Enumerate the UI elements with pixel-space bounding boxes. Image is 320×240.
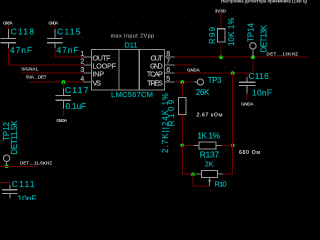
wire pin5 to TP3 bbox=[175, 81, 194, 83]
svg-text:GNDA: GNDA bbox=[3, 20, 13, 25]
wire R10 wiper bbox=[193, 174, 210, 186]
pin 1 bbox=[84, 56, 92, 58]
test point TP3 bbox=[197, 79, 203, 85]
svg-text:DET__11.5KHZ: DET__11.5KHZ bbox=[20, 161, 52, 166]
svg-text:4: 4 bbox=[80, 76, 84, 83]
wire R10 right to rail bbox=[223, 173, 233, 175]
wire C116 to ground bbox=[246, 93, 248, 99]
wire right rail bbox=[232, 73, 234, 174]
capacitor C115 bbox=[47, 29, 63, 48]
node junction R99 bbox=[219, 55, 223, 59]
svg-text:2.67 кОм: 2.67 кОм bbox=[197, 112, 223, 118]
svg-text:3V3D: 3V3D bbox=[215, 9, 227, 14]
wire junction to R109 bbox=[181, 82, 183, 97]
resistor R137 bbox=[182, 144, 193, 146]
svg-text:GNDA: GNDA bbox=[56, 118, 68, 123]
svg-text:3: 3 bbox=[80, 67, 84, 74]
wire DET_11.5KHZ net bbox=[0, 165, 38, 167]
wire C115 to pin1 bbox=[55, 48, 84, 57]
wire C111 stub bbox=[0, 182, 10, 185]
svg-text:10nF: 10nF bbox=[252, 87, 272, 97]
IC D11 LMC567CM tone decoder body bbox=[91, 49, 164, 90]
svg-text:7: 7 bbox=[166, 59, 170, 66]
svg-text:max Input 2Vpp: max Input 2Vpp bbox=[111, 33, 154, 39]
potentiometer R10 bbox=[201, 171, 217, 178]
svg-text:DET11.5K: DET11.5K bbox=[10, 120, 19, 155]
resistor R109 bbox=[179, 97, 186, 114]
capacitor C118 bbox=[1, 29, 17, 48]
capacitor C111 bbox=[2, 185, 18, 198]
capacitor C116 bbox=[246, 73, 248, 77]
test point TP12 bbox=[3, 155, 9, 161]
pin 7 bbox=[165, 64, 175, 66]
wire GNDA to C118 bbox=[7, 25, 9, 29]
wire junction to C117 bbox=[62, 82, 64, 88]
svg-text:GNDA: GNDA bbox=[241, 102, 254, 107]
svg-text:26K: 26K bbox=[196, 88, 210, 97]
wire TCAP up to DET net bbox=[252, 57, 254, 73]
svg-text:TP14: TP14 bbox=[246, 22, 255, 42]
svg-text:47nF: 47nF bbox=[57, 45, 79, 55]
node junction R137 right bbox=[231, 144, 235, 148]
svg-text:10K 1%: 10K 1% bbox=[227, 17, 236, 46]
svg-text:R10: R10 bbox=[215, 179, 227, 188]
wire left rail to R10 bbox=[182, 145, 196, 174]
svg-text:2.7K||24K 1%: 2.7K||24K 1% bbox=[161, 93, 170, 153]
svg-text:D11: D11 bbox=[124, 40, 137, 49]
wire 5VA_DET to pin4 bbox=[29, 81, 84, 83]
svg-text:C117: C117 bbox=[65, 85, 89, 95]
wire 3V3D to R99 bbox=[220, 13, 222, 29]
svg-text:5VA__DET: 5VA__DET bbox=[26, 75, 47, 80]
wire pin7 to GNDA bbox=[175, 64, 194, 66]
wire C111 bottom bbox=[9, 198, 11, 200]
wire pin8 DET_13KHZ net bbox=[175, 56, 308, 58]
svg-text:TCAP: TCAP bbox=[147, 69, 163, 78]
svg-text:C116: C116 bbox=[248, 71, 269, 81]
pin 6 bbox=[165, 72, 175, 74]
node junction C117 tap bbox=[62, 80, 66, 84]
svg-text:680 Ом: 680 Ом bbox=[239, 150, 260, 156]
pin 8 bbox=[165, 56, 175, 58]
svg-text:R137: R137 bbox=[200, 149, 220, 159]
node junction R137 left bbox=[180, 144, 184, 148]
node junction TP12 bbox=[5, 164, 9, 168]
wire C117 to ground bbox=[62, 109, 64, 117]
svg-text:C115: C115 bbox=[57, 27, 81, 37]
wire C118 to pin2 bbox=[8, 48, 83, 65]
svg-text:LMC567CM: LMC567CM bbox=[111, 90, 153, 99]
svg-text:DET13K: DET13K bbox=[260, 24, 269, 52]
pin 5 bbox=[165, 81, 175, 83]
pin 3 bbox=[84, 72, 92, 74]
test point TP14 bbox=[250, 43, 256, 49]
node junction TP14 bbox=[251, 55, 255, 59]
svg-text:47nF: 47nF bbox=[10, 45, 32, 55]
svg-text:C118: C118 bbox=[11, 27, 35, 37]
wire SIGNAL to pin3 bbox=[21, 72, 84, 74]
grid dots bbox=[10, 6, 308, 192]
svg-text:10nF: 10nF bbox=[18, 193, 37, 200]
svg-text:TRES: TRES bbox=[147, 78, 163, 87]
wire R99 to DET net bbox=[220, 42, 222, 57]
svg-text:GNDA: GNDA bbox=[187, 67, 201, 72]
svg-text:R99: R99 bbox=[208, 27, 217, 44]
node junction R10 left/wiper bbox=[191, 173, 195, 177]
resistor R99 bbox=[218, 29, 225, 42]
wiper arrow bbox=[209, 181, 211, 186]
svg-text:SIGNAL: SIGNAL bbox=[21, 67, 38, 72]
wire GNDA to C115 bbox=[54, 25, 56, 29]
svg-text:Настройка детектора приёмника: Настройка детектора приёмника (13кГц) bbox=[221, 0, 307, 3]
svg-text:6: 6 bbox=[166, 67, 170, 74]
svg-text:INP: INP bbox=[93, 69, 105, 78]
svg-text:8: 8 bbox=[166, 51, 170, 58]
svg-text:1K 1%: 1K 1% bbox=[197, 131, 220, 141]
svg-text:GNDA: GNDA bbox=[48, 20, 58, 25]
svg-text:1: 1 bbox=[80, 51, 84, 58]
pin 2 bbox=[84, 64, 92, 66]
wire pin6 TCAP net bbox=[175, 72, 253, 74]
svg-text:DET__13KHZ: DET__13KHZ bbox=[267, 52, 299, 57]
pin 4 bbox=[84, 81, 92, 83]
wire R109 to R137 rail bbox=[181, 114, 183, 145]
capacitor C117 bbox=[56, 88, 72, 108]
node junction pin5/R109 bbox=[180, 80, 184, 84]
svg-text:2: 2 bbox=[80, 59, 84, 66]
svg-text:5: 5 bbox=[166, 76, 170, 83]
svg-text:0.1uF: 0.1uF bbox=[66, 101, 87, 111]
svg-text:VS: VS bbox=[93, 78, 102, 87]
node junction TCAP/right rail bbox=[231, 71, 235, 75]
svg-text:2K: 2K bbox=[205, 161, 214, 168]
svg-text:TP3: TP3 bbox=[208, 76, 223, 85]
